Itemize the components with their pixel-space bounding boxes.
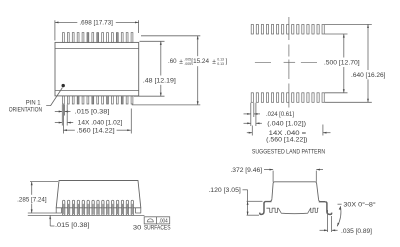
- svg-text:.372 [9.46]: .372 [9.46]: [230, 167, 262, 174]
- dimension 14X .040 [1.02] pitch: extension lines: [61, 116, 63, 126]
- dimension .48 [12.19]: vertical dimension line with arrows: [160, 41, 162, 75]
- dimension 14X .040 [1.02] pitch: arrows: [55, 122, 63, 124]
- side view: left bottom lip: [56, 208, 61, 213]
- svg-text:(.560 [14.22]): (.560 [14.22]): [266, 136, 307, 143]
- svg-text:SUGGESTED LAND PATTERN: SUGGESTED LAND PATTERN: [252, 149, 325, 156]
- dimension .372 [9.46]: arrows: [264, 169, 273, 171]
- end view: left shoulder curl and lead shelf: [265, 199, 272, 202]
- svg-text:[15.24: [15.24: [191, 58, 209, 65]
- svg-text:ORIENTATION: ORIENTATION: [9, 106, 42, 113]
- top view: body inner top edge line: [55, 48, 139, 50]
- top view: lower pin row (15 leads): [63, 96, 133, 104]
- dimension 14X .040 = (.560 [14.22]): left extension line: [251, 126, 253, 136]
- dimension .640 [16.26]: vertical dimension line with arrows: [367, 24, 369, 70]
- dimension .024 [0.61] pad width: arrows: [244, 113, 251, 115]
- top view: body inner bottom edge line: [55, 89, 139, 91]
- svg-text:.60: .60: [168, 58, 177, 65]
- svg-text:14X .040 [1.02]: 14X .040 [1.02]: [78, 120, 123, 127]
- svg-text:±: ±: [212, 58, 216, 65]
- dimension .285 [7.24]: vertical dimension line with arrows: [31, 182, 33, 195]
- svg-text:.500 [12.70]: .500 [12.70]: [324, 60, 360, 67]
- svg-text:.698 [17.73]: .698 [17.73]: [79, 20, 113, 27]
- dimension (.040 [1.02]) pad pitch: arrows: [244, 122, 251, 124]
- svg-text:.48 [12.19]: .48 [12.19]: [143, 77, 176, 84]
- land pattern: lower pad row (15 pads): [251, 93, 324, 103]
- svg-text:.560 [14.22]: .560 [14.22]: [77, 127, 115, 134]
- dimension .60 +-.005 [15.24 +-0.13]: text: [168, 58, 228, 66]
- dimension .698 [17.73]: dimension line with arrows: [55, 21, 77, 23]
- dimension 30X 0-8 degree lead angle: arc with arrows: [337, 206, 341, 226]
- end view: package body outline (top and sides): [272, 182, 319, 200]
- dimension .560 [14.22]: extension lines: [62, 105, 64, 134]
- land pattern: upper pad row (15 pads): [251, 25, 324, 35]
- side view: right bottom lip: [136, 208, 141, 213]
- dimension .60 tolerance: vertical dimension line with arrows: [197, 36, 199, 56]
- svg-text:.004: .004: [159, 219, 168, 225]
- svg-text:0.13: 0.13: [217, 62, 224, 66]
- dimension .60 tolerance: extension lines: [141, 35, 200, 37]
- side view: body standoff line: [28, 212, 56, 214]
- svg-text:.120 [3.05]: .120 [3.05]: [208, 187, 241, 194]
- dimension .372 [9.46]: extension lines: [272, 171, 274, 182]
- dimension .285 [7.24]: top extension line: [30, 181, 58, 183]
- dimension .698 [17.73]: extension lines: [54, 20, 56, 40]
- dimension 30X 0-8 degree lead angle: leader tick: [338, 203, 342, 205]
- dimension .120 [3.05]: vertical dimension line with arrows: [247, 190, 249, 215]
- svg-text:±: ±: [179, 58, 183, 65]
- svg-text:.285 [7.24]: .285 [7.24]: [17, 196, 47, 203]
- svg-text:.640 [16.26]: .640 [16.26]: [351, 72, 386, 79]
- feature control frame: profile tolerance .004: [144, 217, 170, 224]
- dimension .500 [12.70]: vertical dimension line with arrows: [343, 34, 345, 58]
- dimension .035 [0.89]: extension lines: [327, 210, 329, 232]
- land pattern: vertical centerline (dashed): [288, 17, 290, 40]
- svg-text:]: ]: [226, 58, 228, 65]
- top view: package body: [55, 42, 139, 96]
- end view: body bottom edge with standoff bumps and center dish: [266, 208, 318, 214]
- side view: seating plane line: [28, 214, 145, 216]
- side view: package body outline: [56, 181, 141, 208]
- land pattern: horizontal centerline (dashed): [255, 61, 271, 63]
- svg-text:SURFACES: SURFACES: [144, 225, 171, 232]
- dimension .48 [12.19]: extension lines: [140, 40, 165, 42]
- top view: pin 1 indicator dot: [62, 84, 65, 87]
- dimension .024 [0.61] pad width: extension lines: [250, 103, 252, 117]
- svg-text:.035 [0.89]: .035 [0.89]: [341, 228, 372, 235]
- end view: right gull-wing lead: [319, 201, 326, 203]
- svg-text:(.040 [1.02]): (.040 [1.02]): [267, 121, 306, 128]
- dimension .035 [0.89]: arrows: [320, 229, 328, 231]
- end view: right shoulder curl and lead shelf: [319, 200, 326, 202]
- svg-text:.015 [0.38]: .015 [0.38]: [75, 109, 110, 116]
- top view: pin 1 leader line: [46, 88, 62, 106]
- svg-text:.024 [0.61]: .024 [0.61]: [266, 111, 294, 118]
- dimension .015 [0.38] lead width: arrows: [55, 111, 63, 113]
- dimension (.040 [1.02]) pad pitch: extension lines: [250, 117, 252, 126]
- feature control frame: profile-of-surface symbol: [147, 219, 153, 222]
- dimension .015 [0.38] standoff: arrow and leader: [49, 215, 51, 219]
- dimension .015 [0.38] lead width: extension lines: [61, 105, 63, 116]
- side view: gull-wing lead row (15 leads): [63, 200, 134, 215]
- dimension 14X .040 = (.560 [14.22]): arrows: [247, 132, 253, 134]
- svg-text:30: 30: [133, 225, 142, 232]
- dimension .640 [16.26]: extension lines: [325, 23, 372, 25]
- end view: left gull-wing lead: [265, 201, 271, 203]
- top view: upper pin row (15 leads): [63, 33, 133, 43]
- dimension 14X .040 = (.560 [14.22]): right extension line: [322, 125, 324, 136]
- svg-text:.005: .005: [184, 62, 191, 66]
- svg-text:30X 0°–8°: 30X 0°–8°: [343, 202, 376, 209]
- dimension .120 [3.05]: extension lines: [247, 200, 263, 202]
- svg-text:.015 [0.38]: .015 [0.38]: [55, 222, 90, 229]
- dimension .500 [12.70]: extension lines: [325, 33, 348, 35]
- dimension .560 [14.22]: dimension line with arrows: [63, 129, 74, 131]
